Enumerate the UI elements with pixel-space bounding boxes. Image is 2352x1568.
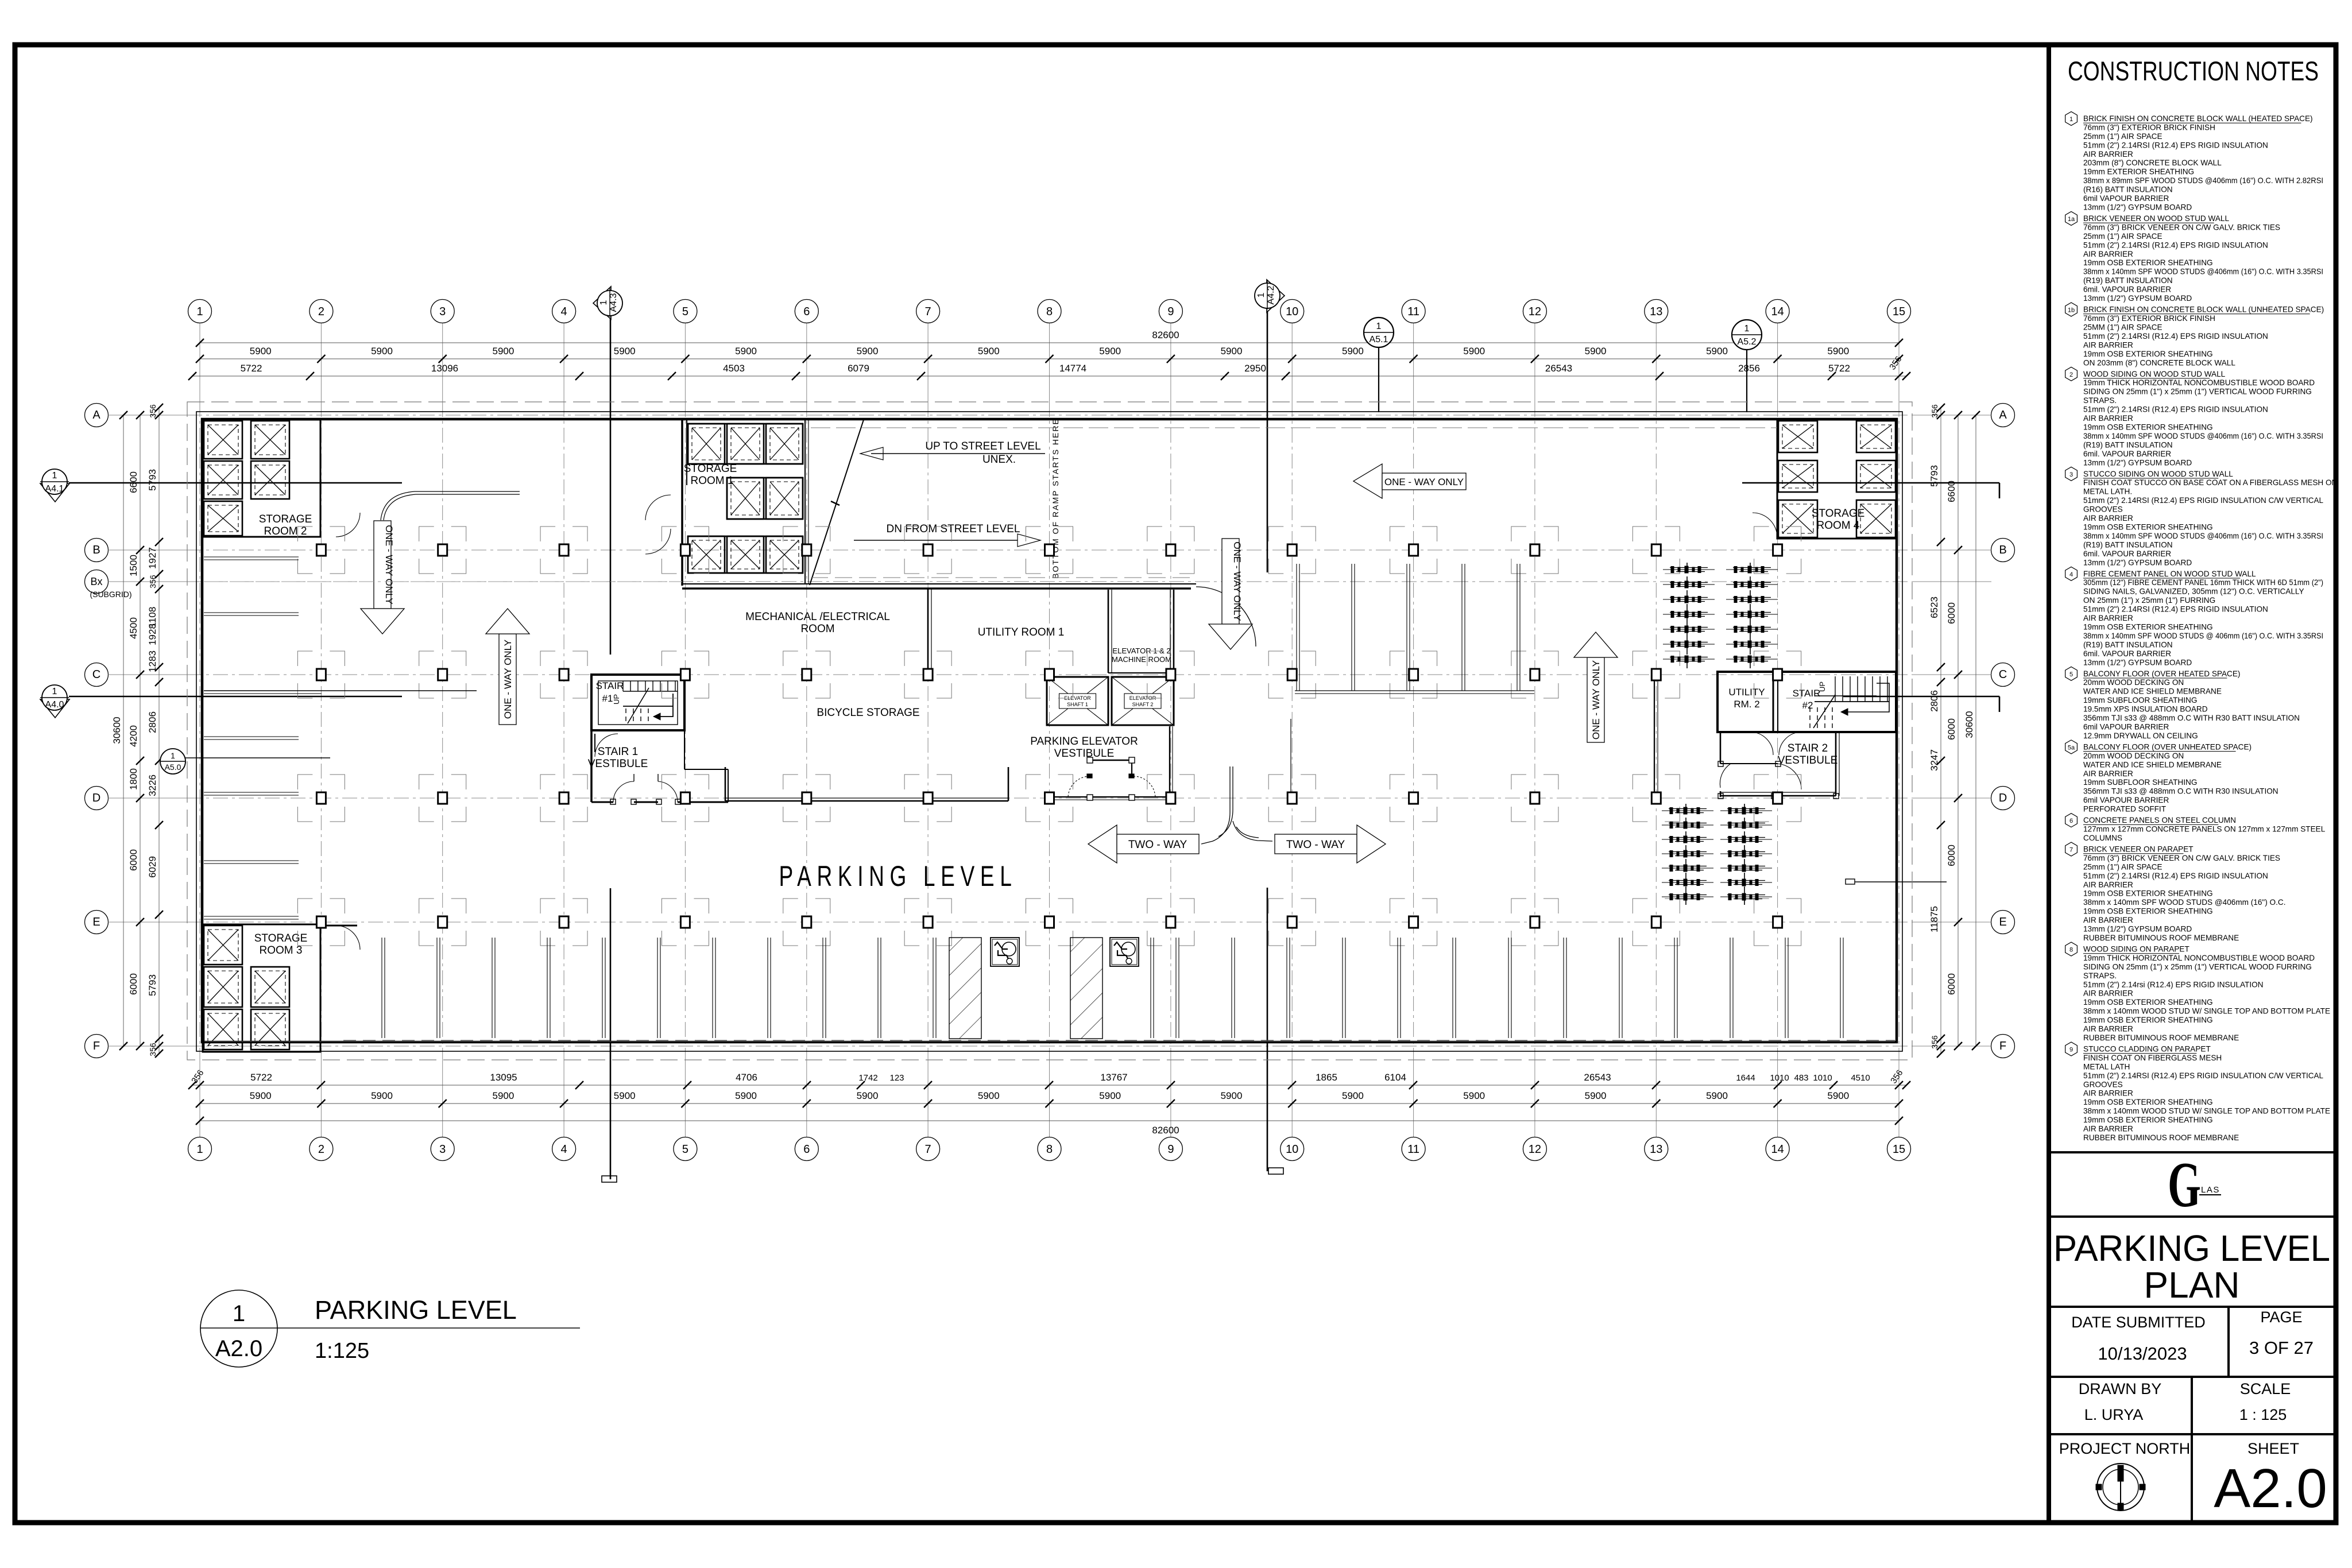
svg-text:6mil. VAPOUR BARRIER: 6mil. VAPOUR BARRIER	[2083, 549, 2171, 558]
left dimension line wall segments	[147, 404, 163, 1058]
svg-text:13767: 13767	[1100, 1072, 1127, 1083]
one-way only arrow (horizontal, top right)	[1353, 464, 1466, 498]
svg-text:WATER AND ICE SHIELD MEMBRANE: WATER AND ICE SHIELD MEMBRANE	[2083, 760, 2222, 769]
svg-text:11: 11	[1407, 1143, 1419, 1156]
svg-text:A4.3: A4.3	[609, 293, 618, 312]
svg-text:5900: 5900	[492, 1090, 514, 1101]
accessible stall symbol 2	[1110, 938, 1139, 966]
construction note 1b	[2065, 303, 2324, 367]
svg-text:1b: 1b	[2068, 307, 2075, 314]
svg-text:RM. 2: RM. 2	[1734, 699, 1759, 710]
svg-text:2: 2	[318, 1143, 324, 1156]
svg-text:STORAGE: STORAGE	[684, 463, 737, 475]
svg-text:6mil. VAPOUR BARRIER: 6mil. VAPOUR BARRIER	[2083, 649, 2171, 658]
up to street level arrow	[860, 440, 1045, 466]
accessible stall hatch 1	[949, 938, 981, 1039]
svg-text:8: 8	[1046, 1143, 1053, 1156]
svg-text:SHAFT 1: SHAFT 1	[1067, 702, 1088, 707]
svg-text:MECHANICAL /ELECTRICAL: MECHANICAL /ELECTRICAL	[745, 611, 890, 623]
svg-text:8: 8	[2069, 947, 2073, 954]
svg-text:A: A	[1999, 409, 2007, 421]
svg-text:25mm (1") AIR SPACE: 25mm (1") AIR SPACE	[2083, 862, 2163, 871]
construction note 2	[2065, 367, 2323, 467]
svg-text:5: 5	[682, 305, 688, 318]
stair 1 vestibule	[588, 730, 728, 804]
svg-text:14: 14	[1771, 305, 1784, 318]
svg-text:ROOM: ROOM	[800, 623, 834, 635]
svg-text:ONE - WAY ONLY: ONE - WAY ONLY	[1384, 477, 1464, 487]
svg-text:4510: 4510	[1851, 1073, 1870, 1083]
svg-text:1: 1	[52, 471, 57, 481]
column grid lines horizontal	[108, 415, 1991, 1046]
svg-text:1:125: 1:125	[315, 1339, 369, 1363]
svg-text:13mm (1/2") GYPSUM BOARD: 13mm (1/2") GYPSUM BOARD	[2083, 658, 2192, 667]
svg-text:UTILITY: UTILITY	[1728, 687, 1765, 698]
svg-text:5900: 5900	[1463, 1090, 1485, 1101]
svg-text:1: 1	[599, 300, 609, 305]
svg-text:2856: 2856	[1738, 363, 1760, 374]
svg-text:AIR BARRIER: AIR BARRIER	[2083, 340, 2133, 349]
left grid bubbles A-F	[85, 404, 138, 1058]
svg-text:5900: 5900	[1463, 346, 1485, 357]
section marker 1/A4.3 top	[593, 287, 622, 319]
svg-text:A2.0: A2.0	[2214, 1458, 2327, 1519]
svg-text:5900: 5900	[1706, 1090, 1728, 1101]
right edge callout line	[1846, 879, 1947, 884]
svg-text:A5.0: A5.0	[165, 762, 181, 772]
svg-text:AIR BARRIER: AIR BARRIER	[2083, 1089, 2133, 1098]
svg-text:TWO - WAY: TWO - WAY	[1128, 839, 1187, 851]
svg-text:20mm WOOD DECKING ON: 20mm WOOD DECKING ON	[2083, 752, 2184, 760]
section line A4.3 top segment	[610, 318, 612, 655]
svg-text:203mm (8") CONCRETE BLOCK WALL: 203mm (8") CONCRETE BLOCK WALL	[2083, 158, 2222, 167]
svg-text:BRICK FINISH ON CONCRETE BLOCK: BRICK FINISH ON CONCRETE BLOCK WALL (HEA…	[2083, 114, 2313, 123]
svg-text:UP TO STREET LEVEL: UP TO STREET LEVEL	[925, 440, 1040, 452]
svg-text:1: 1	[52, 687, 57, 696]
svg-text:9: 9	[1167, 1143, 1174, 1156]
svg-text:A2.0: A2.0	[215, 1336, 262, 1361]
bottom dimension line segments	[188, 1068, 1910, 1089]
svg-text:METAL LATH.: METAL LATH.	[2083, 487, 2132, 496]
drawing title bubble 1/A2.0	[200, 1290, 277, 1367]
svg-text:AIR BARRIER: AIR BARRIER	[2083, 880, 2133, 889]
svg-text:SIDING NAILS, GALVANIZED, 305: SIDING NAILS, GALVANIZED, 305mm (12") O.…	[2083, 587, 2304, 596]
svg-text:10/13/2023: 10/13/2023	[2098, 1344, 2187, 1364]
svg-text:6000: 6000	[128, 849, 139, 871]
svg-text:76mm (3") BRICK VENEER ON C/W: 76mm (3") BRICK VENEER ON C/W GALV. BRIC…	[2083, 223, 2280, 231]
svg-text:2806: 2806	[1929, 690, 1940, 712]
interior face line below top wall right part	[811, 427, 1777, 428]
svg-text:Bx: Bx	[90, 576, 102, 587]
svg-text:4: 4	[561, 1143, 567, 1156]
svg-text:CONCRETE PANELS ON STEEL COLUM: CONCRETE PANELS ON STEEL COLUMN	[2083, 816, 2236, 824]
svg-text:76mm (3") BRICK VENEER ON C/W: 76mm (3") BRICK VENEER ON C/W GALV. BRIC…	[2083, 854, 2280, 862]
svg-text:30600: 30600	[1964, 711, 1975, 738]
section line A4.1	[69, 482, 402, 484]
svg-text:123: 123	[889, 1073, 904, 1083]
svg-text:6mil. VAPOUR BARRIER: 6mil. VAPOUR BARRIER	[2083, 285, 2171, 294]
svg-text:SIDING ON 25mm (1") x 25mm (1": SIDING ON 25mm (1") x 25mm (1") VERTICAL…	[2083, 388, 2312, 396]
svg-text:L. URYA: L. URYA	[2084, 1406, 2144, 1423]
svg-text:AIR BARRIER: AIR BARRIER	[2083, 989, 2133, 998]
svg-text:VESTIBULE: VESTIBULE	[1054, 748, 1115, 760]
svg-text:25mm (1") AIR SPACE: 25mm (1") AIR SPACE	[2083, 232, 2163, 241]
svg-text:PAGE: PAGE	[2260, 1308, 2302, 1326]
svg-text:GROOVES: GROOVES	[2083, 505, 2123, 514]
svg-text:19mm OSB EXTERIOR SHEATHING: 19mm OSB EXTERIOR SHEATHING	[2083, 907, 2213, 916]
svg-text:3247: 3247	[1929, 749, 1940, 771]
svg-text:51mm (2") 2.14RSI (R12.4) EPS: 51mm (2") 2.14RSI (R12.4) EPS RIGID INSU…	[2083, 605, 2268, 614]
svg-text:25mm (1") AIR SPACE: 25mm (1") AIR SPACE	[2083, 132, 2163, 141]
ramp corridor dashed guide	[811, 577, 1191, 578]
parking stalls mid right (rows B-C)	[1295, 564, 1534, 694]
svg-text:38mm x 140mm WOOD STUD W/ SING: 38mm x 140mm WOOD STUD W/ SINGLE TOP AND…	[2083, 1007, 2330, 1016]
svg-text:UNEX.: UNEX.	[982, 454, 1016, 466]
accessible stall symbol 1	[991, 938, 1019, 966]
construction note 8	[2065, 942, 2330, 1042]
svg-text:51mm (2") 2.14RSI (R12.4) EPS: 51mm (2") 2.14RSI (R12.4) EPS RIGID INSU…	[2083, 405, 2268, 414]
svg-text:4500: 4500	[128, 617, 139, 639]
svg-text:PERFORATED SOFFIT: PERFORATED SOFFIT	[2083, 805, 2166, 814]
top grid bubbles 1-15	[188, 300, 1911, 323]
svg-text:WOOD SIDING ON WOOD STUD WALL: WOOD SIDING ON WOOD STUD WALL	[2083, 370, 2226, 378]
svg-text:VESTIBULE: VESTIBULE	[1778, 754, 1838, 766]
parking stalls bottom row (left half)	[382, 938, 936, 1038]
svg-text:5900: 5900	[1827, 1090, 1849, 1101]
bicycle storage south wall	[725, 767, 1008, 801]
svg-text:WOOD SIDING ON PARAPET: WOOD SIDING ON PARAPET	[2083, 945, 2189, 954]
svg-text:AIR BARRIER: AIR BARRIER	[2083, 614, 2133, 622]
svg-text:4503: 4503	[723, 363, 745, 374]
elevation marker 1/A5.2	[1732, 320, 1762, 412]
construction note 3	[2065, 467, 2338, 567]
section marker 1/A4.0 left	[40, 685, 69, 718]
svg-text:TWO - WAY: TWO - WAY	[1286, 839, 1345, 851]
left dimension line 30600	[111, 411, 127, 1050]
svg-text:(R19) BATT INSULATION: (R19) BATT INSULATION	[2083, 540, 2173, 549]
svg-text:2: 2	[2069, 371, 2073, 378]
construction note 5a	[2065, 740, 2278, 814]
svg-text:76mm (3") EXTERIOR BRICK FINIS: 76mm (3") EXTERIOR BRICK FINISH	[2083, 314, 2215, 323]
svg-text:13: 13	[1650, 305, 1662, 318]
svg-text:7: 7	[925, 1143, 931, 1156]
svg-text:26543: 26543	[1584, 1072, 1611, 1083]
svg-text:5900: 5900	[978, 1090, 1000, 1101]
svg-text:19mm OSB EXTERIOR SHEATHING: 19mm OSB EXTERIOR SHEATHING	[2083, 889, 2213, 898]
bottom grid bubbles 1-15	[188, 1137, 1911, 1161]
svg-text:30600: 30600	[111, 717, 122, 744]
svg-text:STUCCO CLADDING ON PARAPET: STUCCO CLADDING ON PARAPET	[2083, 1045, 2211, 1054]
svg-text:13mm (1/2") GYPSUM BOARD: 13mm (1/2") GYPSUM BOARD	[2083, 458, 2192, 467]
svg-text:19mm OSB EXTERIOR SHEATHING: 19mm OSB EXTERIOR SHEATHING	[2083, 423, 2213, 432]
svg-text:26543: 26543	[1545, 363, 1572, 374]
svg-text:19mm SUBFLOOR SHEATHING: 19mm SUBFLOOR SHEATHING	[2083, 778, 2197, 787]
svg-text:STRAPS.: STRAPS.	[2083, 396, 2117, 405]
svg-text:38mm x 140mm SPF WOOD STUDS @: 38mm x 140mm SPF WOOD STUDS @ 406mm (16"…	[2083, 632, 2323, 640]
elevation marker 1/A5.0 in plan	[160, 749, 330, 774]
building outer wall (thick inner face)	[202, 419, 1897, 1042]
svg-text:RUBBER BITUMINOUS ROOF MEMBRAN: RUBBER BITUMINOUS ROOF MEMBRANE	[2083, 1033, 2239, 1042]
svg-text:483: 483	[1794, 1073, 1808, 1083]
svg-text:DN FROM STREET LEVEL: DN FROM STREET LEVEL	[887, 523, 1020, 535]
section line A4.1 right hook	[1742, 483, 1999, 498]
drive aisle guide lines upper left	[204, 691, 477, 694]
svg-text:356: 356	[148, 1043, 157, 1056]
svg-text:COLUMNS: COLUMNS	[2083, 834, 2122, 842]
svg-text:GROOVES: GROOVES	[2083, 1080, 2123, 1089]
two-way arrow (left)	[1088, 825, 1199, 863]
bike storage west wall on grid 13	[1654, 672, 1658, 798]
corridor end door arc	[1196, 587, 1256, 646]
svg-text:356: 356	[1930, 1035, 1939, 1049]
svg-text:(R19) BATT INSULATION: (R19) BATT INSULATION	[2083, 276, 2173, 285]
svg-text:38mm x 140mm SPF WOOD STUDS @4: 38mm x 140mm SPF WOOD STUDS @406mm (16")…	[2083, 532, 2323, 540]
svg-text:(R19) BATT INSULATION: (R19) BATT INSULATION	[2083, 640, 2173, 649]
svg-text:5900: 5900	[614, 346, 636, 357]
svg-text:D: D	[1999, 792, 2007, 804]
svg-text:38mm x 140mm SPF WOOD STUDS @4: 38mm x 140mm SPF WOOD STUDS @406mm (16")…	[2083, 898, 2285, 907]
svg-text:13mm (1/2") GYPSUM BOARD: 13mm (1/2") GYPSUM BOARD	[2083, 294, 2192, 303]
svg-text:F: F	[1999, 1040, 2006, 1052]
svg-text:356: 356	[1930, 404, 1939, 418]
elevation marker 1/A5.1	[1364, 318, 1394, 412]
svg-text:10: 10	[1286, 305, 1298, 318]
svg-text:5900: 5900	[1342, 346, 1364, 357]
svg-text:STRAPS.: STRAPS.	[2083, 971, 2117, 980]
title block divider	[2047, 45, 2051, 1523]
svg-text:356: 356	[148, 575, 157, 589]
svg-text:BICYCLE STORAGE: BICYCLE STORAGE	[817, 707, 919, 719]
top dimension line 5900 bays	[196, 346, 1903, 363]
parking stalls left wall	[204, 557, 299, 919]
svg-text:STAIR 1: STAIR 1	[598, 746, 638, 758]
svg-text:ONE - WAY ONLY: ONE - WAY ONLY	[1591, 660, 1601, 740]
svg-text:6mil. VAPOUR BARRIER: 6mil. VAPOUR BARRIER	[2083, 450, 2171, 458]
ramp walls and edge	[805, 420, 864, 585]
svg-text:VESTIBULE: VESTIBULE	[588, 758, 648, 770]
svg-text:A4.0: A4.0	[45, 700, 64, 710]
mechanical/electrical room	[745, 589, 931, 671]
svg-text:20mm WOOD DECKING ON: 20mm WOOD DECKING ON	[2083, 678, 2184, 687]
svg-text:6: 6	[803, 305, 810, 318]
svg-text:19mm EXTERIOR SHEATHING: 19mm EXTERIOR SHEATHING	[2083, 168, 2194, 176]
svg-text:MACHINE ROOM: MACHINE ROOM	[1112, 655, 1171, 664]
svg-text:STUCCO SIDING ON WOOD STUD WAL: STUCCO SIDING ON WOOD STUD WALL	[2083, 470, 2233, 478]
section line A4.0	[69, 696, 402, 698]
svg-text:1800: 1800	[128, 768, 139, 790]
svg-text:PARKING LEVEL: PARKING LEVEL	[2053, 1228, 2330, 1269]
svg-text:LAS: LAS	[2201, 1185, 2220, 1195]
svg-text:4200: 4200	[128, 725, 139, 747]
svg-text:1: 1	[196, 305, 203, 318]
svg-text:1: 1	[196, 1143, 203, 1156]
svg-text:G: G	[2168, 1149, 2201, 1221]
corridor wall (mech/utility rooms north)	[682, 584, 1196, 589]
svg-text:D: D	[92, 792, 100, 804]
building outer wall (thin outer face)	[196, 412, 1902, 1051]
svg-text:13mm (1/2") GYPSUM BOARD: 13mm (1/2") GYPSUM BOARD	[2083, 203, 2192, 212]
svg-text:DRAWN BY: DRAWN BY	[2079, 1380, 2162, 1397]
svg-text:AIR BARRIER: AIR BARRIER	[2083, 1125, 2133, 1133]
svg-text:3226: 3226	[147, 775, 158, 796]
svg-text:BRICK VENEER ON PARAPET: BRICK VENEER ON PARAPET	[2083, 845, 2194, 854]
svg-text:1010: 1010	[1813, 1073, 1832, 1083]
svg-text:19mm OSB EXTERIOR SHEATHING: 19mm OSB EXTERIOR SHEATHING	[2083, 350, 2213, 358]
floor-above dashed overhang outline	[187, 402, 1912, 1060]
svg-text:7: 7	[925, 305, 931, 318]
svg-text:1a: 1a	[2068, 216, 2075, 223]
svg-text:12.9mm DRYWALL ON CEILING: 12.9mm DRYWALL ON CEILING	[2083, 731, 2198, 740]
svg-text:ONE - WAY ONLY: ONE - WAY ONLY	[384, 525, 394, 604]
one-way only arrow (up, right bay)	[1574, 632, 1618, 742]
svg-text:1283: 1283	[147, 651, 158, 672]
svg-text:#2: #2	[1802, 700, 1813, 711]
svg-text:5900: 5900	[250, 346, 272, 357]
svg-text:5a: 5a	[2068, 744, 2075, 751]
svg-text:B: B	[92, 544, 100, 556]
svg-text:ON 203mm (8") CONCRETE BLOCK: ON 203mm (8") CONCRETE BLOCK WALL	[2083, 358, 2235, 367]
svg-text:5793: 5793	[147, 469, 158, 491]
svg-text:5900: 5900	[1342, 1090, 1364, 1101]
svg-text:A5.2: A5.2	[1738, 337, 1757, 347]
bike racks group 1 (rows B-C)	[1663, 563, 1778, 671]
svg-text:ROOM 4: ROOM 4	[1817, 520, 1860, 532]
svg-text:1927: 1927	[147, 547, 158, 569]
svg-text:ONE - WAY ONLY: ONE - WAY ONLY	[502, 640, 513, 719]
elevator shaft 2	[1112, 677, 1174, 725]
svg-text:51mm (2") 2.14RSI (R12.4) EPS: 51mm (2") 2.14RSI (R12.4) EPS RIGID INSU…	[2083, 496, 2323, 505]
svg-text:STAIR 2: STAIR 2	[1788, 742, 1828, 754]
svg-text:6000: 6000	[1946, 973, 1957, 995]
svg-text:5900: 5900	[1706, 346, 1728, 357]
svg-text:1: 1	[1256, 292, 1266, 297]
stall end dashed line bottom	[343, 1040, 1895, 1041]
svg-text:11875: 11875	[1929, 906, 1940, 932]
svg-text:5722: 5722	[250, 1072, 272, 1083]
svg-text:5900: 5900	[250, 1090, 272, 1101]
svg-text:5900: 5900	[978, 346, 1000, 357]
svg-text:7: 7	[2069, 847, 2073, 854]
svg-text:(R16) BATT INSULATION: (R16) BATT INSULATION	[2083, 185, 2173, 194]
svg-text:5900: 5900	[1827, 346, 1849, 357]
svg-text:10: 10	[1286, 1143, 1298, 1156]
svg-text:AIR BARRIER: AIR BARRIER	[2083, 250, 2133, 258]
svg-text:38mm x 140mm SPF WOOD STUDS @4: 38mm x 140mm SPF WOOD STUDS @406mm (16")…	[2083, 268, 2323, 276]
svg-text:1865: 1865	[1316, 1072, 1337, 1083]
storage room 2	[203, 420, 360, 537]
svg-text:STORAGE: STORAGE	[254, 932, 308, 944]
svg-text:356mm TJI s33 @ 488mm O.C WITH: 356mm TJI s33 @ 488mm O.C WITH R30 INSUL…	[2083, 787, 2278, 796]
svg-text:BRICK FINISH ON CONCRETE BLOCK: BRICK FINISH ON CONCRETE BLOCK WALL (UNH…	[2083, 305, 2324, 314]
svg-text:6000: 6000	[128, 973, 139, 995]
svg-text:E: E	[92, 916, 100, 928]
svg-text:51mm (2") 2.14RSI (R12.4) EPS: 51mm (2") 2.14RSI (R12.4) EPS RIGID INSU…	[2083, 332, 2268, 340]
interior face line above bottom wall	[204, 1041, 1895, 1042]
construction note 4	[2065, 567, 2323, 667]
svg-text:ROOM 1: ROOM 1	[691, 475, 734, 487]
svg-text:AIR BARRIER: AIR BARRIER	[2083, 150, 2133, 158]
svg-text:A4.2: A4.2	[1266, 285, 1276, 304]
svg-text:1 : 125: 1 : 125	[2239, 1406, 2287, 1423]
svg-text:19mm OSB EXTERIOR SHEATHING: 19mm OSB EXTERIOR SHEATHING	[2083, 523, 2213, 532]
svg-text:2: 2	[318, 305, 324, 318]
svg-text:15: 15	[1893, 1143, 1905, 1156]
construction note 9	[2065, 1042, 2330, 1142]
svg-text:1742: 1742	[858, 1073, 877, 1083]
svg-text:13mm (1/2") GYPSUM BOARD: 13mm (1/2") GYPSUM BOARD	[2083, 925, 2192, 934]
svg-text:AIR BARRIER: AIR BARRIER	[2083, 1025, 2133, 1033]
svg-text:6mil VAPOUR BARRIER: 6mil VAPOUR BARRIER	[2083, 723, 2169, 731]
svg-text:4: 4	[561, 305, 567, 318]
svg-text:FIBRE CEMENT PANEL ON WOOD STU: FIBRE CEMENT PANEL ON WOOD STUD WALL	[2083, 570, 2256, 578]
svg-text:RUBBER BITUMINOUS ROOF MEMBRAN: RUBBER BITUMINOUS ROOF MEMBRANE	[2083, 1133, 2239, 1142]
svg-text:19mm THICK HORIZONTAL NONCOMBU: 19mm THICK HORIZONTAL NONCOMBUSTIBLE WOO…	[2083, 378, 2315, 387]
svg-text:WATER AND ICE SHIELD MEMBRANE: WATER AND ICE SHIELD MEMBRANE	[2083, 687, 2222, 696]
bike racks group 2 (rows D-E)	[1662, 804, 1772, 905]
svg-text:51mm (2") 2.14RSI (R12.4) EPS: 51mm (2") 2.14RSI (R12.4) EPS RIGID INSU…	[2083, 141, 2268, 149]
svg-text:5900: 5900	[371, 1090, 393, 1101]
elevator shaft 1	[1047, 677, 1108, 725]
svg-text:1: 1	[233, 1301, 245, 1326]
right dimension line 30600	[1964, 411, 1980, 1050]
svg-text:FINISH COAT STUCCO ON BASE COA: FINISH COAT STUCCO ON BASE COAT ON A FIB…	[2083, 478, 2337, 487]
svg-text:PLAN: PLAN	[2144, 1264, 2239, 1306]
svg-text:FINISH COAT ON FIBERGLASS MESH: FINISH COAT ON FIBERGLASS MESH	[2083, 1054, 2222, 1062]
one-way only arrow (down, left bay)	[361, 521, 404, 634]
svg-text:A: A	[92, 409, 100, 421]
one-way only arrow (down, right-mid bay)	[1209, 539, 1252, 649]
svg-text:ROOM 2: ROOM 2	[264, 525, 307, 537]
svg-text:19mm OSB EXTERIOR SHEATHING: 19mm OSB EXTERIOR SHEATHING	[2083, 1016, 2213, 1024]
svg-text:B: B	[1999, 544, 2006, 556]
structural columns at grid intersections	[297, 526, 1801, 946]
svg-text:ROOM 3: ROOM 3	[260, 944, 303, 957]
right dimension line main rows	[1946, 411, 1962, 1050]
svg-text:1: 1	[1376, 322, 1382, 331]
svg-text:5900: 5900	[371, 346, 393, 357]
svg-text:STORAGE: STORAGE	[1812, 508, 1865, 520]
dn from street level arrow	[854, 523, 1040, 547]
svg-text:ONE - WAY ONLY: ONE - WAY ONLY	[1232, 541, 1243, 621]
svg-text:51mm (2") 2.14rsi (R12.4) EPS: 51mm (2") 2.14rsi (R12.4) EPS RIGID INSU…	[2083, 980, 2264, 989]
svg-text:4706: 4706	[736, 1072, 757, 1083]
svg-text:12: 12	[1529, 305, 1541, 318]
storage room 3	[203, 924, 360, 1052]
svg-text:(R19) BATT INSULATION: (R19) BATT INSULATION	[2083, 440, 2173, 449]
svg-text:51mm (2") 2.14RSI (R12.4) EPS: 51mm (2") 2.14RSI (R12.4) EPS RIGID INSU…	[2083, 1071, 2323, 1080]
svg-text:13095: 13095	[490, 1072, 517, 1083]
top dimension line segments	[188, 354, 1910, 380]
accessible stall hatch 2	[1070, 938, 1102, 1039]
construction note 7	[2065, 842, 2286, 942]
svg-text:6079: 6079	[848, 363, 869, 374]
svg-text:1500: 1500	[128, 555, 139, 576]
svg-text:PARKING ELEVATOR: PARKING ELEVATOR	[1030, 735, 1138, 748]
svg-text:5900: 5900	[735, 346, 757, 357]
svg-text:SIDING ON 25mm (1") x 25mm (1": SIDING ON 25mm (1") x 25mm (1") VERTICAL…	[2083, 962, 2312, 971]
svg-text:2950: 2950	[1244, 363, 1266, 374]
svg-text:5900: 5900	[857, 1090, 879, 1101]
svg-text:METAL LATH: METAL LATH	[2083, 1062, 2130, 1071]
svg-text:RUBBER BITUMINOUS ROOF MEMBRAN: RUBBER BITUMINOUS ROOF MEMBRANE	[2083, 934, 2239, 942]
svg-text:UTILITY ROOM 1: UTILITY ROOM 1	[978, 626, 1065, 638]
svg-text:AIR BARRIER: AIR BARRIER	[2083, 916, 2133, 924]
stair 2 vestibule	[1718, 732, 1839, 799]
ramp lane curve	[381, 491, 520, 520]
svg-text:BRICK VENEER ON WOOD STUD WALL: BRICK VENEER ON WOOD STUD WALL	[2083, 214, 2229, 223]
svg-text:PARKING LEVEL: PARKING LEVEL	[315, 1295, 517, 1325]
svg-text:SCALE: SCALE	[2240, 1380, 2291, 1397]
